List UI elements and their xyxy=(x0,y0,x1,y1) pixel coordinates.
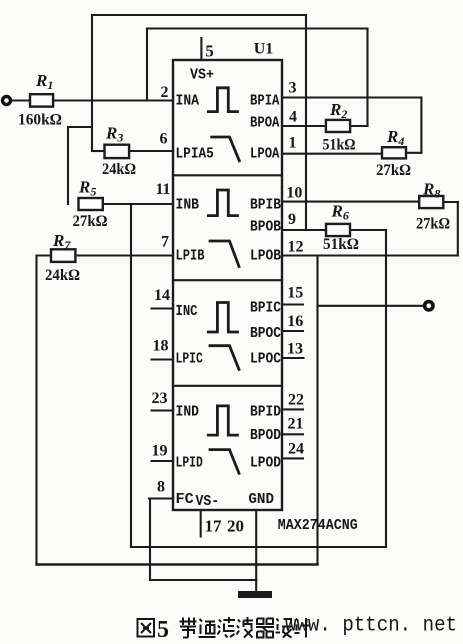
svg-text:LPOD: LPOD xyxy=(250,454,281,471)
bandpass symbol section C xyxy=(208,303,237,333)
pin 5 stub xyxy=(200,38,202,60)
wire R7 left xyxy=(37,254,52,256)
svg-text:LPID: LPID xyxy=(176,454,203,471)
wire branch node to R5 xyxy=(68,127,92,204)
pin 20 ground stem xyxy=(255,510,257,591)
svg-text:160kΩ: 160kΩ xyxy=(18,112,62,129)
svg-text:VS+: VS+ xyxy=(190,67,214,84)
svg-text:17: 17 xyxy=(205,517,223,536)
svg-text:20: 20 xyxy=(227,517,244,536)
svg-text:19: 19 xyxy=(152,443,168,460)
svg-text:5: 5 xyxy=(157,617,169,643)
wire R6 right xyxy=(350,229,386,231)
wire pin 9 BPOB to R6 xyxy=(282,229,326,231)
lowpass symbol section D xyxy=(210,450,239,474)
svg-text:24: 24 xyxy=(288,441,304,458)
svg-text:BPID: BPID xyxy=(250,403,281,420)
resistor R2 xyxy=(326,120,350,132)
IC section divider B/C xyxy=(173,279,282,281)
svg-text:21: 21 xyxy=(288,416,304,433)
wire input to R1 xyxy=(11,99,31,101)
svg-text:3: 3 xyxy=(289,80,297,97)
wire line B right leg to R2 xyxy=(366,29,368,127)
svg-text:2: 2 xyxy=(161,84,169,101)
svg-text:MAX274ACNG: MAX274ACNG xyxy=(278,517,358,534)
svg-text:BPIB: BPIB xyxy=(250,197,281,214)
svg-text:BPOB: BPOB xyxy=(250,218,281,235)
svg-text:12: 12 xyxy=(288,239,304,256)
pin 19 stub xyxy=(152,460,174,462)
wire pin3 leg down to R4 xyxy=(420,98,422,153)
wire bottom net R6 to pin11 leg xyxy=(131,546,386,548)
wire line B left leg to INA node xyxy=(146,29,148,101)
svg-text:LPIB: LPIB xyxy=(176,248,205,265)
wire pin 10 BPIB to R8 xyxy=(282,201,419,203)
wire LPOB leg down xyxy=(316,256,318,565)
svg-text:10: 10 xyxy=(286,185,302,202)
svg-text:15: 15 xyxy=(287,285,303,302)
caption char tong (pass) xyxy=(199,619,216,637)
wire FC leg down xyxy=(149,499,151,581)
wire R7 to pin 7 LPIB xyxy=(75,254,173,256)
svg-text:www. pttcn. net: www. pttcn. net xyxy=(285,615,457,638)
wire R6 leg down xyxy=(385,230,387,547)
wire feedback top line A right leg to pin 9 xyxy=(305,15,307,230)
svg-text:16: 16 xyxy=(287,313,303,330)
wire bottom FC to ground xyxy=(150,579,256,581)
svg-text:51kΩ: 51kΩ xyxy=(323,236,359,253)
wire R2 right xyxy=(350,125,367,127)
svg-text:LPOA: LPOA xyxy=(250,145,279,162)
resistor R8 xyxy=(419,196,443,208)
bandpass symbol section A xyxy=(208,88,237,112)
svg-text:9: 9 xyxy=(288,211,296,228)
svg-text:VS-: VS- xyxy=(196,493,220,510)
IC section divider C/D xyxy=(173,385,282,387)
wire R7 left leg down xyxy=(35,256,37,565)
svg-text:IND: IND xyxy=(176,403,200,420)
ground xyxy=(238,591,272,598)
pin 17 stub xyxy=(200,510,202,537)
svg-text:LPOC: LPOC xyxy=(250,350,281,367)
resistor R4 xyxy=(382,147,406,158)
svg-text:BPIC: BPIC xyxy=(250,299,281,316)
svg-text:27kΩ: 27kΩ xyxy=(376,162,411,179)
svg-text:LPIC: LPIC xyxy=(176,350,203,367)
svg-text:U1: U1 xyxy=(254,41,274,58)
lowpass symbol section B xyxy=(210,241,239,267)
svg-text:BPIA: BPIA xyxy=(250,93,279,110)
resistor R5 xyxy=(79,198,103,210)
svg-text:INC: INC xyxy=(176,303,198,320)
pin 13 stub xyxy=(282,357,304,359)
svg-text:INA: INA xyxy=(176,93,200,110)
pin 22 stub xyxy=(282,408,303,410)
wire junction pin11 down leg xyxy=(130,204,132,547)
resistor R3 xyxy=(105,145,130,158)
svg-text:11: 11 xyxy=(155,181,170,198)
IC section divider A/B xyxy=(173,174,282,176)
caption char tu (figure) xyxy=(138,619,155,637)
svg-text:FC: FC xyxy=(176,491,194,508)
svg-text:4: 4 xyxy=(289,109,297,126)
wire feedback top line A left leg xyxy=(91,15,93,151)
pin 8 FC stub xyxy=(149,497,173,499)
output terminal node xyxy=(425,302,433,310)
wire pin 1 LPOA to R4 xyxy=(282,153,382,155)
pin 18 stub xyxy=(152,358,174,360)
bandpass symbol section B xyxy=(208,190,237,216)
wire pin 3 BPIA xyxy=(282,96,421,98)
caption char ji (meter) xyxy=(295,618,311,638)
op-amp U1 IC body MAX274 xyxy=(173,60,282,510)
wire R5 to pin 11 INB xyxy=(103,203,173,205)
svg-text:23: 23 xyxy=(152,390,168,407)
svg-text:14: 14 xyxy=(154,287,170,304)
svg-text:7: 7 xyxy=(161,234,169,251)
wire pin 4 BPOA to R2 xyxy=(282,125,326,127)
caption char lv (filter) xyxy=(218,617,236,638)
lowpass symbol section C xyxy=(210,346,239,370)
resistor R7 xyxy=(51,249,75,262)
caption char qi (device) xyxy=(256,619,274,638)
wire R4 right xyxy=(406,152,421,154)
pin 15 stub xyxy=(282,303,303,305)
wire bottom net R7 to LPOB leg xyxy=(37,563,318,565)
caption char she (design) xyxy=(276,619,293,638)
caption char dai (band) xyxy=(180,618,197,638)
resistor R1 xyxy=(30,94,53,106)
wire R8 right xyxy=(443,201,458,203)
pin 23 stub xyxy=(152,409,174,411)
svg-text:INB: INB xyxy=(176,197,200,214)
svg-text:GND: GND xyxy=(248,491,274,508)
svg-text:27kΩ: 27kΩ xyxy=(416,216,450,233)
svg-text:22: 22 xyxy=(288,392,304,409)
wire feedback top line A horizontal xyxy=(92,14,306,16)
svg-text:LPOB: LPOB xyxy=(250,248,281,265)
pin 14 stub xyxy=(152,307,174,309)
wire R8 leg down xyxy=(457,202,459,256)
wire R1 to pin 2 INA xyxy=(53,99,173,101)
pin 21 stub xyxy=(282,433,303,435)
wire pin 12 LPOB xyxy=(282,254,458,256)
svg-text:13: 13 xyxy=(287,341,303,358)
svg-text:51kΩ: 51kΩ xyxy=(323,137,356,154)
svg-text:1: 1 xyxy=(289,135,297,152)
bandpass symbol section D xyxy=(208,406,237,435)
svg-text:24kΩ: 24kΩ xyxy=(102,161,136,178)
wire output from LPOB leg xyxy=(318,305,424,307)
pin 16 stub xyxy=(282,330,303,332)
wire line B horizontal xyxy=(147,27,368,29)
wire R3 left to line A leg xyxy=(92,150,105,152)
lowpass symbol section A xyxy=(212,137,240,161)
svg-text:BPOA: BPOA xyxy=(250,114,279,131)
svg-text:LPIA5: LPIA5 xyxy=(176,145,214,162)
svg-text:24kΩ: 24kΩ xyxy=(45,267,80,284)
pin 24 stub xyxy=(282,457,303,459)
wire R3 to pin 6 LPIA xyxy=(129,150,173,152)
input terminal node xyxy=(3,97,11,105)
caption char bo (wave) xyxy=(237,617,254,638)
svg-text:18: 18 xyxy=(153,338,169,355)
svg-text:27kΩ: 27kΩ xyxy=(73,213,108,230)
svg-text:BPOD: BPOD xyxy=(250,427,281,444)
svg-text:6: 6 xyxy=(160,131,168,148)
resistor R6 xyxy=(326,224,350,236)
svg-text:5: 5 xyxy=(205,42,214,61)
svg-text:8: 8 xyxy=(157,479,165,496)
svg-text:BPOC: BPOC xyxy=(250,325,281,342)
